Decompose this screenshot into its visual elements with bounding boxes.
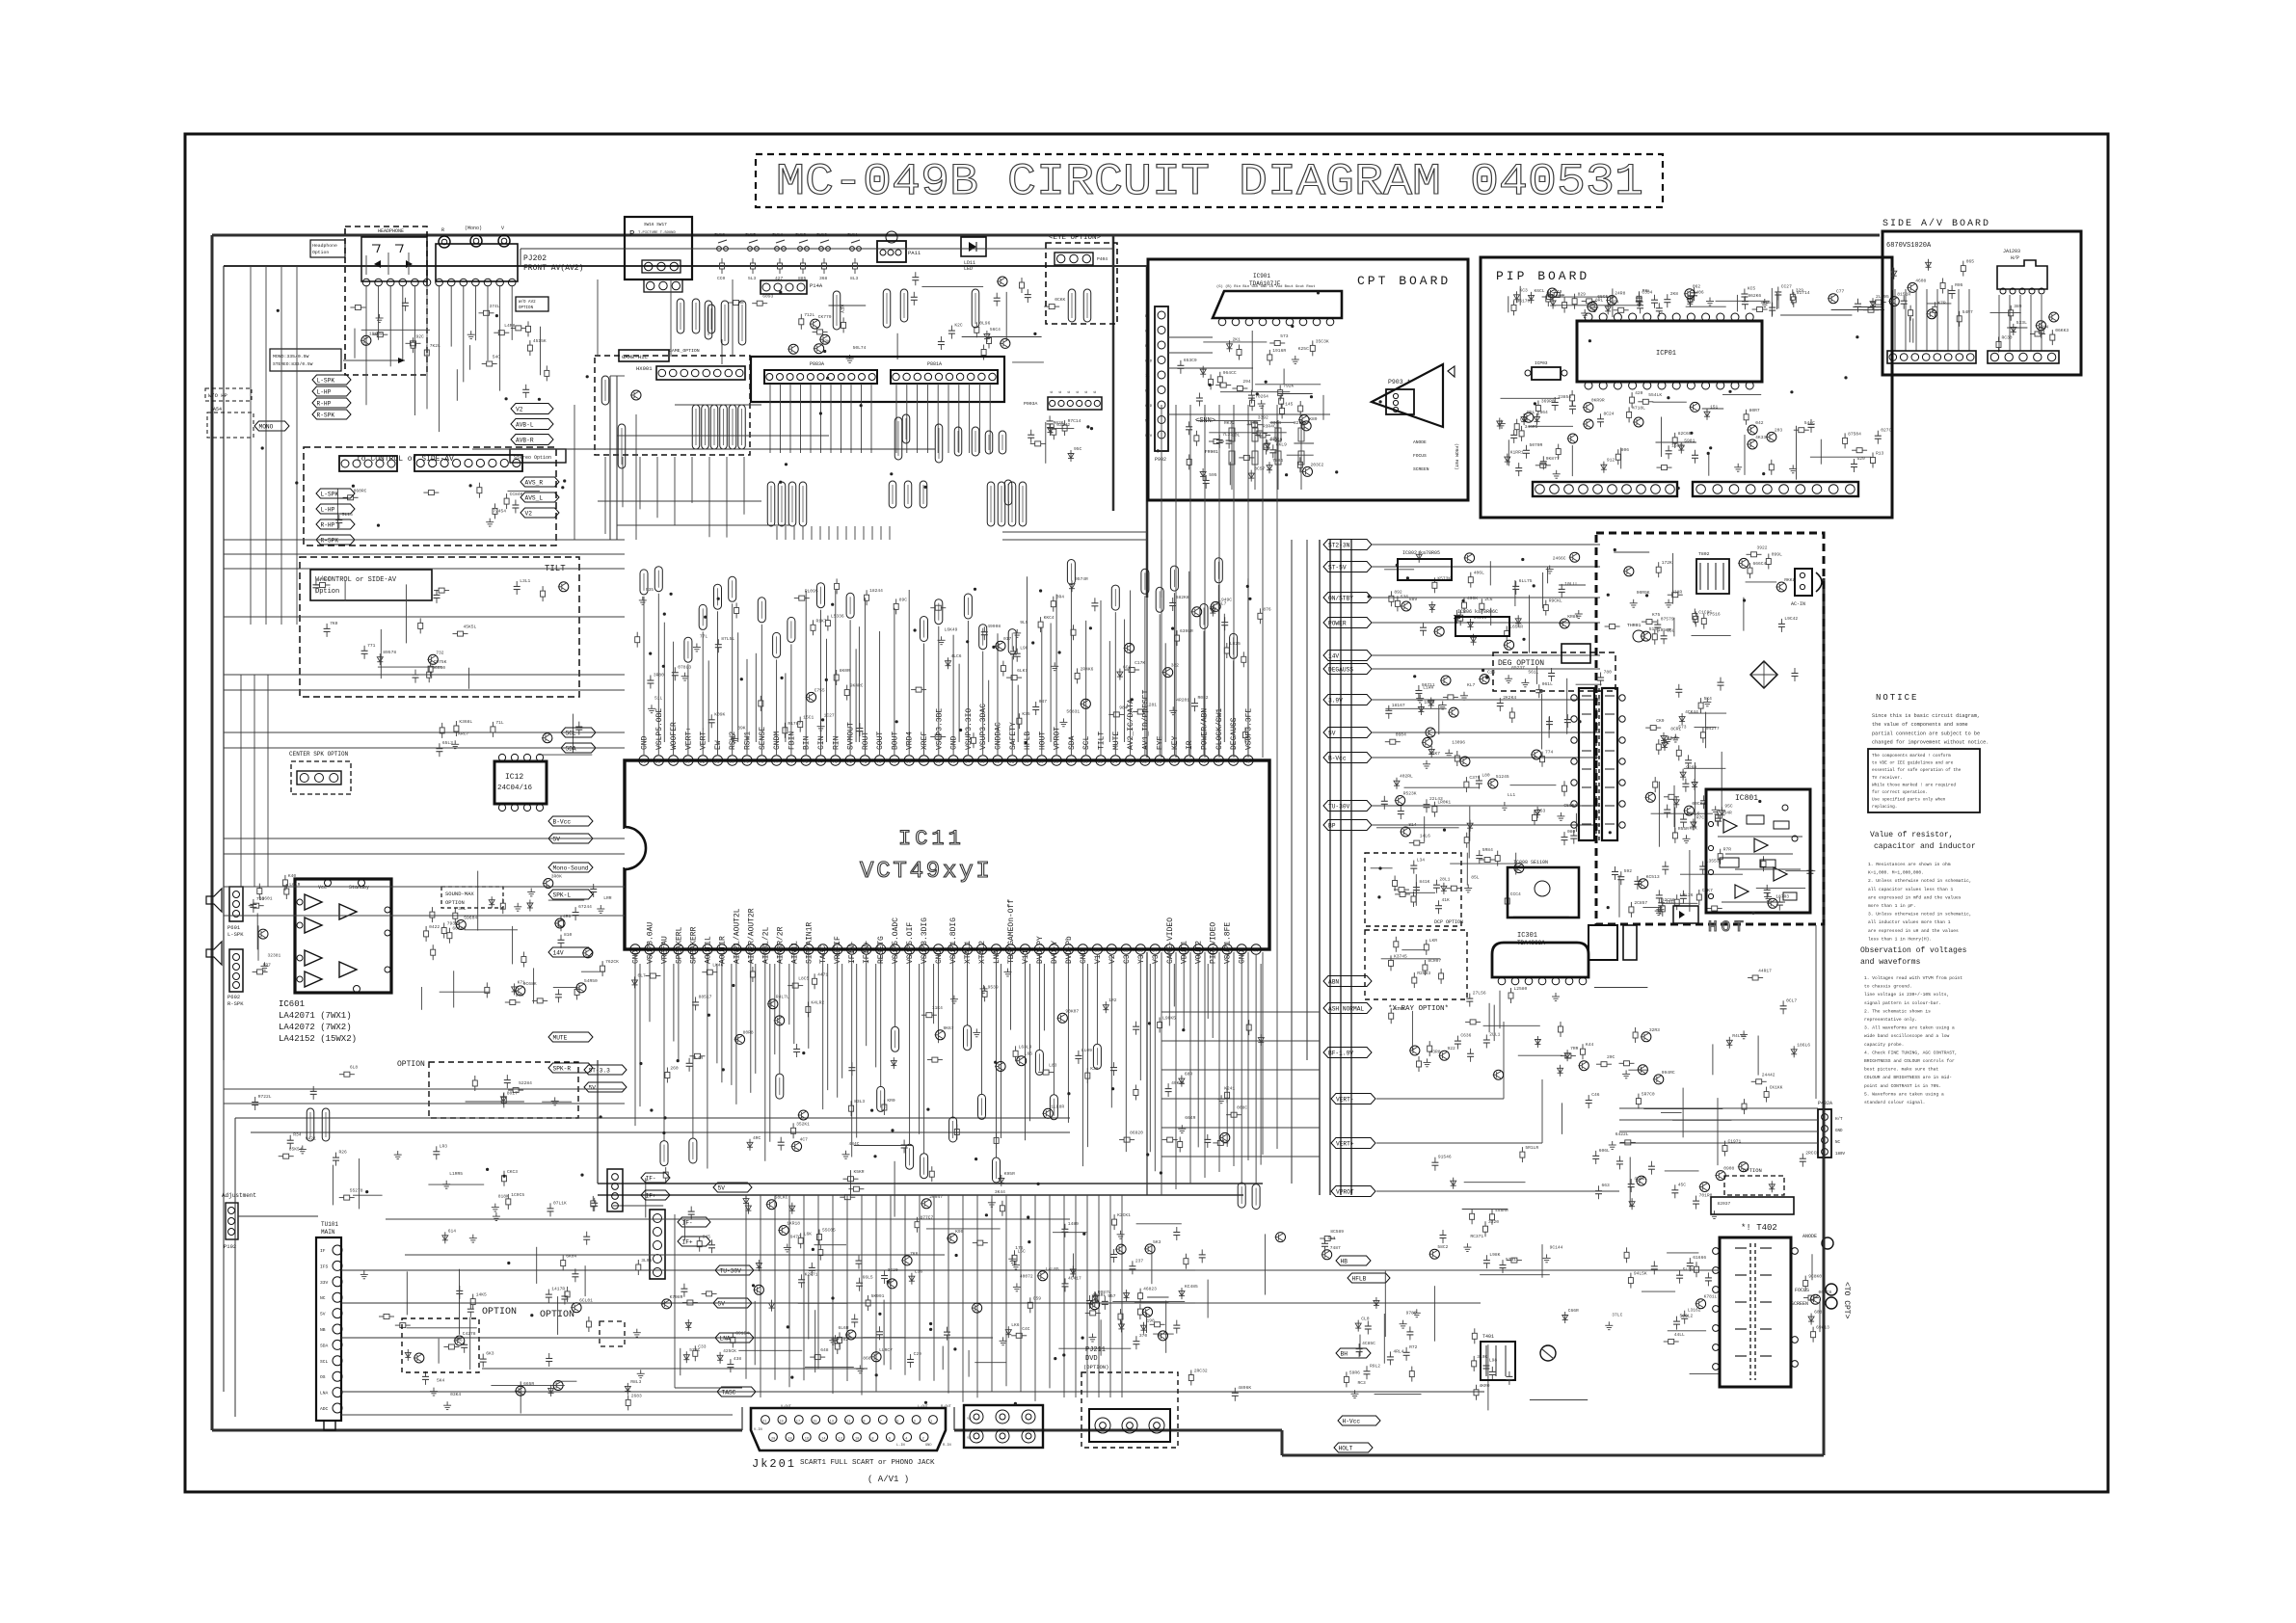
svg-text:FRONT AV(AV2): FRONT AV(AV2): [523, 264, 583, 273]
svg-text:648: 648: [820, 1347, 829, 1353]
svg-text:PJ211: PJ211: [1085, 1346, 1106, 1354]
svg-text:HT: HT: [1145, 390, 1150, 394]
svg-text:1LL8R: 1LL8R: [1051, 1104, 1064, 1109]
svg-text:420: 420: [1635, 390, 1643, 396]
svg-text:VCT49xyI: VCT49xyI: [860, 859, 993, 885]
svg-text:K2CK1: K2CK1: [1117, 1212, 1131, 1218]
svg-text:SCL: SCL: [320, 1359, 329, 1365]
svg-text:L2580: L2580: [1514, 986, 1528, 992]
svg-text:6C1: 6C1: [1123, 665, 1132, 671]
svg-text:VREFIF: VREFIF: [834, 936, 842, 964]
svg-text:L3L1: L3L1: [520, 578, 530, 584]
svg-text:CL0: CL0: [1361, 1317, 1370, 1322]
svg-text:18244: 18244: [869, 588, 883, 594]
left net hexlabels group: [316, 489, 355, 545]
EW correction IC808 box: [1508, 860, 1579, 918]
sparse parts right of IC11: [1175, 606, 1271, 1152]
svg-text:AV2_IC/DATA: AV2_IC/DATA: [1127, 699, 1135, 750]
svg-text:5V: 5V: [589, 1085, 597, 1092]
svg-text:P102: P102: [224, 1243, 236, 1250]
svg-text:T802: T802: [1698, 551, 1710, 557]
key switch SW18: [714, 232, 861, 281]
svg-text:592: 592: [1624, 868, 1633, 874]
svg-text:VPROT: VPROT: [1336, 1189, 1354, 1196]
svg-text:C1C9C: C1C9C: [1698, 609, 1712, 615]
svg-text:FOCUS: FOCUS: [1413, 453, 1427, 459]
svg-text:VERT+: VERT+: [1336, 1141, 1354, 1148]
svg-text:Vcc: Vcc: [318, 885, 327, 891]
PJ202 pin wires down: [366, 286, 512, 432]
svg-text:402RL: 402RL: [1400, 774, 1413, 780]
svg-text:RIN: RIN: [832, 735, 841, 750]
svg-text:425CK: 425CK: [723, 1348, 736, 1354]
svg-text:to VDE or IEC guidelines and a: to VDE or IEC guidelines and are: [1872, 761, 1954, 766]
svg-text:4C85C: 4C85C: [1362, 1341, 1375, 1346]
svg-text:64: 64: [965, 759, 971, 765]
W/CONTROL or SIDE-AV option label box: [310, 570, 432, 600]
svg-text:replacing.: replacing.: [1872, 805, 1897, 810]
svg-text:810: 810: [564, 932, 573, 938]
svg-text:98711: 98711: [1422, 682, 1435, 688]
svg-text:LA42072 (7WX2): LA42072 (7WX2): [279, 1023, 352, 1032]
IC601 designator label: [279, 999, 357, 1044]
svg-text:KRC7: KRC7: [458, 731, 468, 736]
svg-text:L36: L36: [915, 1269, 923, 1275]
side AV input parts: [1888, 259, 1974, 343]
svg-text:DEGAUSS: DEGAUSS: [1328, 667, 1353, 674]
svg-text:OPTION: OPTION: [482, 1307, 517, 1317]
svg-text:2K8: 2K8: [1670, 291, 1679, 297]
anode terminal: [1802, 1234, 1833, 1249]
svg-text:XTAL1: XTAL1: [964, 941, 973, 964]
EYE OPTION dashed box: [1046, 234, 1117, 324]
svg-text:OS: OS: [320, 1374, 326, 1380]
svg-text:4608: 4608: [1915, 278, 1926, 283]
svg-text:LNA: LNA: [720, 1336, 731, 1343]
game net stadiums: [601, 376, 745, 468]
svg-text:L83: L83: [1049, 1063, 1057, 1069]
svg-text:FR901: FR901: [1205, 449, 1218, 455]
speaker symbol R: [206, 942, 222, 965]
power supply dashed boundary: [1596, 533, 1824, 924]
svg-text:GNDDAC: GNDDAC: [995, 722, 1003, 750]
TILT dashed box: [300, 557, 579, 697]
connector P883A: [764, 361, 877, 384]
svg-text:187R3: 187R3: [1775, 893, 1789, 899]
svg-text:JA54: JA54: [210, 407, 222, 412]
game area vertical drops: [598, 457, 1147, 540]
svg-text:GAME-H1C: GAME-H1C: [622, 354, 648, 360]
svg-text:62: 62: [995, 759, 1001, 765]
HX001 connector: [656, 366, 745, 380]
net stadiums FOR-VIDEO TAP-SVIDEO: [894, 417, 1006, 463]
CPT input connector P902: [1145, 306, 1168, 463]
svg-text:K35: K35: [1022, 711, 1030, 717]
svg-text:61: 61: [1009, 759, 1015, 765]
svg-text:B-Vcc: B-Vcc: [553, 819, 572, 826]
svg-text:P902: P902: [1155, 457, 1166, 463]
svg-text:COLOUR and BRIGHTNESS are in m: COLOUR and BRIGHTNESS are in mid-: [1864, 1075, 1952, 1080]
svg-text:TDA4863A: TDA4863A: [1517, 940, 1545, 946]
svg-text:GND: GND: [641, 735, 650, 750]
svg-text:14: 14: [821, 1438, 825, 1442]
value of resistor heading: [1870, 831, 1976, 851]
svg-text:59: 59: [1038, 759, 1044, 765]
PIP right parts: [1766, 419, 1892, 480]
svg-text:4718L: 4718L: [1632, 405, 1645, 411]
svg-text:KC513: KC513: [1646, 874, 1660, 880]
decoupling above IC11: [635, 576, 1248, 748]
svg-text:1: 1: [930, 1421, 932, 1424]
svg-text:61666: 61666: [1693, 1255, 1706, 1261]
svg-text:060RC: 060RC: [354, 488, 367, 493]
svg-text:R036: R036: [1054, 420, 1064, 426]
svg-text:19: 19: [779, 1421, 783, 1424]
svg-text:606L: 606L: [1599, 1148, 1610, 1154]
main board left border wire: [211, 235, 214, 1430]
AC inlet plug FB03: [1791, 569, 1822, 607]
svg-text:IC12: IC12: [505, 773, 523, 782]
svg-text:SCL: SCL: [566, 731, 576, 737]
svg-text:T-PICTURE T-SOUND: T-PICTURE T-SOUND: [638, 231, 676, 235]
svg-text:LL1: LL1: [1508, 792, 1516, 798]
svg-text:(OPTION): (OPTION): [1083, 1364, 1108, 1370]
svg-text:While those marked ! are requi: While those marked ! are required: [1872, 783, 1956, 787]
svg-text:33V: 33V: [320, 1280, 329, 1286]
svg-text:more than 1 in pF.: more than 1 in pF.: [1868, 903, 1916, 909]
svg-text:2: 2: [922, 1438, 924, 1442]
svg-text:partial connection are subject: partial connection are subject to be: [1872, 731, 1980, 736]
svg-text:C755: C755: [814, 687, 825, 693]
svg-text:TASC: TASC: [722, 1390, 736, 1397]
svg-text:061L: 061L: [1542, 681, 1553, 687]
svg-text:1C0C5: 1C0C5: [511, 1192, 524, 1198]
coupling below IC11: [632, 963, 1248, 1154]
svg-text:TU101: TU101: [321, 1221, 338, 1228]
svg-text:RC3: RC3: [1358, 1380, 1367, 1386]
svg-text:5981: 5981: [1684, 439, 1695, 444]
svg-text:145: 145: [1285, 401, 1294, 407]
svg-text:3R0K: 3R0K: [551, 874, 562, 880]
svg-text:4471: 4471: [817, 971, 828, 977]
svg-text:868: 868: [863, 1355, 871, 1361]
svg-text:all capacitor values less than: all capacitor values less than 1: [1868, 887, 1953, 892]
svg-text:C16: C16: [1487, 670, 1496, 676]
svg-text:12: 12: [839, 1438, 842, 1442]
feedback divider: [1612, 866, 1665, 918]
svg-text:C66R: C66R: [1568, 1308, 1579, 1314]
PJ202 front AV jack circle mono: [465, 226, 482, 247]
svg-text:0L96: 0L96: [979, 320, 990, 326]
svg-text:V2: V2: [525, 511, 533, 518]
svg-text:96170: 96170: [1517, 298, 1531, 304]
svg-text:LRR: LRR: [603, 895, 612, 901]
vertical divider bus x=1155: [1112, 235, 1115, 511]
svg-text:078L3: 078L3: [678, 664, 691, 670]
svg-text:95C: 95C: [1724, 803, 1733, 809]
svg-text:LKR: LKR: [1429, 938, 1438, 944]
svg-text:B-Vcc: B-Vcc: [1328, 756, 1347, 762]
AC input parts: [1605, 552, 1683, 633]
regulator IC801 power box: [1706, 789, 1810, 913]
svg-text:89578: 89578: [383, 650, 396, 655]
svg-text:7938L: 7938L: [447, 921, 461, 927]
svg-text:5K4: 5K4: [1704, 696, 1713, 702]
IC11 top pin row with labels: [639, 689, 1254, 765]
svg-text:80R8: 80R8: [743, 1029, 754, 1035]
svg-text:( A/V1 ): ( A/V1 ): [868, 1475, 909, 1484]
svg-text:EW: EW: [714, 740, 723, 750]
svg-text:9C8K0: 9C8K0: [1808, 1274, 1822, 1280]
svg-text:0574R: 0574R: [1075, 576, 1088, 582]
svg-text:346R5: 346R5: [1525, 424, 1538, 430]
svg-text:L-SPK: L-SPK: [227, 931, 244, 938]
svg-text:IC11: IC11: [898, 827, 965, 851]
svg-text:LK46: LK46: [712, 963, 723, 969]
svg-text:C4R: C4R: [1520, 417, 1529, 423]
svg-text:are expressed in uH and the va: are expressed in uH and the values: [1868, 928, 1959, 934]
svg-text:9C144: 9C144: [1550, 1244, 1563, 1250]
front AV passive components: [457, 304, 549, 401]
tuner lower-left parts: [252, 1065, 593, 1396]
svg-text:1956R: 1956R: [1658, 627, 1671, 633]
P14A connector: [761, 280, 823, 294]
svg-text:5. Waveforms are taken using a: 5. Waveforms are taken using a: [1864, 1091, 1944, 1097]
svg-text:85: 85: [655, 759, 661, 765]
power switch PA11: [877, 231, 921, 262]
svg-text:5K991: 5K991: [871, 1293, 885, 1299]
svg-text:544C: 544C: [1804, 420, 1815, 426]
svg-text:5: 5: [896, 1421, 898, 1424]
svg-text:368: 368: [819, 276, 828, 281]
svg-text:4. Check FINE TUNING, AGC CONT: 4. Check FINE TUNING, AGC CONTRAST,: [1864, 1050, 1958, 1055]
svg-text:P402A: P402A: [1818, 1101, 1832, 1106]
svg-text:SCART1 FULL SCART or PHONO JAC: SCART1 FULL SCART or PHONO JACK: [800, 1459, 935, 1467]
svg-text:15C1: 15C1: [803, 715, 814, 721]
svg-text:V: V: [501, 226, 504, 231]
svg-text:AC-IN: AC-IN: [1791, 601, 1805, 607]
svg-text:32K: 32K: [822, 339, 831, 345]
svg-text:14V: 14V: [1328, 653, 1339, 660]
svg-text:7K6: 7K6: [910, 1251, 919, 1257]
svg-text:06KK3: 06KK3: [2055, 328, 2069, 333]
svg-text:IF+: IF+: [646, 1193, 656, 1200]
svg-text:6870VS1020A: 6870VS1020A: [1886, 242, 1932, 250]
svg-text:32L4: 32L4: [1294, 420, 1304, 426]
horizontal bus under IC11: [598, 1060, 1263, 1195]
svg-text:C4C: C4C: [1022, 1326, 1030, 1332]
svg-text:608: 608: [1814, 1310, 1823, 1316]
svg-text:4CK44: 4CK44: [1685, 709, 1698, 715]
svg-text:352K1: 352K1: [796, 1121, 810, 1127]
svg-text:BOUT: BOUT: [891, 732, 899, 750]
svg-text:VERT-: VERT-: [1336, 1097, 1354, 1104]
svg-text:Value of resistor,: Value of resistor,: [1870, 831, 1953, 839]
svg-text:6LL75: 6LL75: [1519, 578, 1533, 584]
svg-text:V-IN: V-IN: [754, 1428, 762, 1432]
svg-text:OPTION: OPTION: [519, 306, 534, 310]
svg-text:IF+: IF+: [682, 1239, 693, 1246]
IF+, IF- hexes: [678, 1217, 710, 1246]
svg-text:00CK3: 00CK3: [1692, 801, 1705, 807]
SMPS transformer T801: [1571, 688, 1625, 840]
svg-text:458RR: 458RR: [1495, 1208, 1508, 1213]
svg-text:U5V: U5V: [1145, 435, 1153, 439]
svg-text:L-HP: L-HP: [321, 507, 335, 514]
svg-text:OPTION: OPTION: [1743, 1167, 1762, 1174]
svg-text:841K: 841K: [1419, 879, 1429, 885]
svg-text:374L: 374L: [490, 304, 500, 309]
svg-text:IF: IF: [320, 1248, 326, 1254]
svg-text:54R7: 54R7: [1962, 309, 1973, 315]
svg-text:R1K7: R1K7: [816, 618, 827, 624]
net hexes right of tuner: [713, 1183, 756, 1397]
svg-text:4R8: 4R8: [563, 914, 572, 919]
svg-text:HEADPHONE: HEADPHONE: [378, 228, 404, 234]
P903A small connector: [1024, 390, 1102, 410]
P402A connector: [1818, 1101, 1846, 1157]
svg-text:L66: L66: [1025, 1051, 1033, 1057]
LED LD11: [961, 237, 986, 272]
svg-text:0L7: 0L7: [638, 972, 647, 978]
svg-text:SENSE: SENSE: [759, 727, 767, 750]
svg-text:RKKL: RKKL: [1784, 577, 1795, 583]
svg-text:37LC: 37LC: [1612, 1312, 1622, 1317]
svg-text:50831: 50831: [1066, 708, 1080, 714]
svg-text:892: 892: [1394, 589, 1402, 595]
svg-text:K38: K38: [1090, 1066, 1099, 1072]
svg-text:11: 11: [846, 1421, 850, 1424]
TILT circuit transistors: [312, 576, 568, 689]
svg-text:18167: 18167: [1392, 703, 1405, 708]
svg-text:P602: P602: [227, 994, 240, 1000]
svg-text:IC801: IC801: [1735, 794, 1758, 803]
svg-text:89C: 89C: [899, 597, 908, 602]
side AV internal wires: [1895, 289, 2042, 351]
svg-text:DVD: DVD: [1085, 1355, 1098, 1363]
svg-text:K25C: K25C: [1298, 346, 1309, 352]
svg-text:07579: 07579: [1661, 617, 1674, 623]
svg-text:P404: P404: [1097, 256, 1108, 262]
svg-text:L4L05: L4L05: [1046, 1266, 1059, 1272]
svg-text:TAGC: TAGC: [819, 945, 828, 964]
svg-text:C1971: C1971: [1728, 1139, 1742, 1145]
svg-text:OPTION: OPTION: [540, 1310, 574, 1320]
svg-text:VSUP5.OADC: VSUP5.OADC: [892, 918, 900, 964]
arrow to headphone network: [343, 358, 405, 363]
svg-text:9L5: 9L5: [1020, 620, 1028, 625]
svg-text:32381: 32381: [268, 952, 281, 958]
svg-text:Stereo Option: Stereo Option: [514, 455, 551, 461]
right-side vertical wires: [1619, 925, 1824, 1455]
svg-text:490K: 490K: [1467, 596, 1478, 601]
svg-text:57RC: 57RC: [689, 1347, 700, 1353]
svg-text:PA11: PA11: [908, 250, 921, 256]
svg-text:SW12: SW12: [816, 232, 827, 238]
svg-text:C636: C636: [1460, 1033, 1471, 1039]
svg-text:HOLT: HOLT: [1339, 1446, 1353, 1452]
svg-text:MAIN: MAIN: [321, 1229, 335, 1236]
svg-text:780: 780: [1604, 670, 1613, 676]
long top distribution wires: [521, 249, 1147, 357]
svg-text:less than 1 in Henry(H).: less than 1 in Henry(H).: [1868, 936, 1932, 942]
svg-text:R55R: R55R: [1678, 826, 1689, 832]
svg-text:862K6: 862K6: [1748, 293, 1761, 299]
svg-text:080: 080: [1567, 829, 1576, 835]
svg-text:R-HP: R-HP: [317, 401, 332, 408]
svg-text:9K67: 9K67: [944, 1025, 954, 1031]
standby regulator cluster: [1384, 551, 1586, 653]
svg-text:KKC4: KKC4: [1044, 615, 1055, 621]
svg-text:DVD-Pb: DVD-Pb: [1065, 936, 1074, 964]
svg-text:(Mono): (Mono): [465, 226, 482, 231]
svg-text:XTAL2: XTAL2: [978, 941, 987, 964]
svg-text:5V: 5V: [1328, 731, 1336, 737]
PJ202 FRONT AV(AV2) label: [523, 254, 583, 273]
svg-text:*! T402: *! T402: [1741, 1223, 1777, 1233]
svg-text:VPROT: VPROT: [1054, 727, 1062, 750]
svg-text:ANODE: ANODE: [1413, 439, 1427, 445]
focus screen terminals: [1791, 1284, 1837, 1309]
Q11 transistor: [998, 277, 1007, 286]
svg-text:Option: Option: [315, 588, 339, 596]
svg-text:TBS/GAMEOn-Off: TBS/GAMEOn-Off: [1007, 899, 1016, 964]
main board bottom border wire: [212, 1430, 1824, 1455]
svg-text:682K8: 682K8: [1176, 595, 1189, 600]
svg-text:IF-: IF-: [682, 1220, 693, 1227]
svg-text:24R8: 24R8: [1615, 291, 1625, 297]
svg-text:MUTE: MUTE: [1112, 732, 1121, 750]
svg-text:ST-5V: ST-5V: [1328, 565, 1347, 572]
svg-text:IC901: IC901: [1253, 273, 1270, 279]
svg-text:ABN: ABN: [1328, 979, 1339, 986]
svg-text:SIF/AIN1R: SIF/AIN1R: [805, 922, 814, 964]
svg-text:984: 984: [1119, 705, 1128, 710]
svg-text:KR0: KR0: [887, 1098, 895, 1104]
svg-text:IFIN+: IFIN+: [863, 941, 871, 964]
svg-text:KEY: KEY: [839, 305, 844, 313]
svg-text:LA42071 (7WX1): LA42071 (7WX1): [279, 1011, 352, 1021]
svg-text:Mono-Sound: Mono-Sound: [553, 865, 589, 872]
svg-text:SW11: SW11: [847, 232, 858, 238]
audio amplifier IC601 body: [295, 879, 391, 993]
svg-text:LL09: LL09: [1081, 1048, 1092, 1053]
svg-text:8K0R: 8K0R: [840, 668, 850, 674]
svg-text:K2R71: K2R71: [805, 1271, 818, 1277]
svg-text:666C4: 666C4: [1753, 561, 1767, 567]
svg-text:1916R: 1916R: [1272, 348, 1286, 354]
svg-text:DCP OPTION: DCP OPTION: [1434, 919, 1463, 925]
SCART label JK201: [752, 1457, 935, 1484]
svg-text:ICP03: ICP03: [1535, 360, 1548, 366]
svg-text:762CK: 762CK: [605, 959, 619, 965]
svg-text:65: 65: [950, 759, 956, 765]
OPTION dashed box with 2N7000: [397, 1060, 578, 1118]
svg-text:Y3: Y3: [1137, 954, 1146, 964]
PJ202 pin row: [362, 279, 370, 286]
svg-text:CC27: CC27: [1781, 284, 1792, 290]
PIP lower parts: [1497, 390, 1767, 478]
svg-text:and waveforms: and waveforms: [1860, 958, 1921, 967]
svg-text:L3553: L3553: [1706, 859, 1720, 865]
right vertical bus lines: [1292, 540, 1351, 1195]
svg-text:CK9: CK9: [1656, 718, 1665, 724]
svg-text:VSUP1.8DIG: VSUP1.8DIG: [949, 918, 958, 964]
svg-text:83: 83: [684, 759, 690, 765]
svg-text:41K: 41K: [1442, 897, 1451, 903]
svg-text:68R: 68R: [1185, 1072, 1193, 1078]
tuner OPTION dashed box 1: [402, 1307, 517, 1372]
